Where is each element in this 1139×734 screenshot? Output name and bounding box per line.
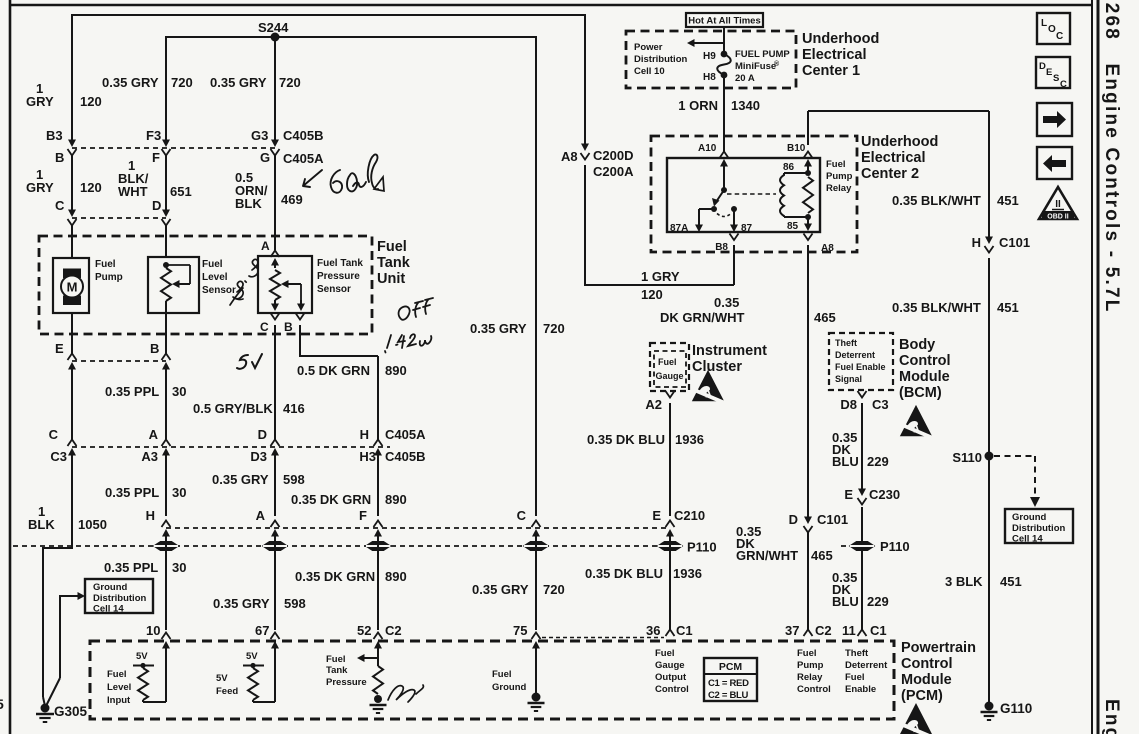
connector G3/G on W3 xyxy=(271,140,279,148)
page border top line xyxy=(10,4,1092,7)
svg-text:120: 120 xyxy=(80,180,102,195)
svg-text:Distribution: Distribution xyxy=(634,54,687,65)
pressure sensor lower arrow xyxy=(274,300,276,305)
svg-text:Fuel: Fuel xyxy=(95,259,116,270)
svg-text:Gauge: Gauge xyxy=(656,371,684,381)
svg-text:Output: Output xyxy=(655,672,687,683)
svg-text:MiniFuse: MiniFuse xyxy=(735,61,776,72)
svg-text:Deterrent: Deterrent xyxy=(845,660,888,671)
svg-text:Input: Input xyxy=(107,695,131,706)
relay switch-coil dashed link xyxy=(727,193,776,195)
svg-text:0.35 BLK/WHT: 0.35 BLK/WHT xyxy=(892,300,981,315)
connector D C101 on relay control wire xyxy=(807,517,809,519)
svg-text:52: 52 xyxy=(357,623,371,638)
svg-text:Level: Level xyxy=(202,272,228,283)
svg-text:B10: B10 xyxy=(787,143,806,154)
svg-text:451: 451 xyxy=(997,300,1019,315)
fuel pump brush lower xyxy=(63,296,81,306)
PCM dashed box xyxy=(90,641,894,719)
Instrument cluster outer dashed box xyxy=(650,343,689,391)
junction row P110 dashed line xyxy=(13,545,682,547)
svg-text:Deterrent: Deterrent xyxy=(835,350,875,360)
svg-text:Electrical: Electrical xyxy=(802,47,867,63)
svg-text:30: 30 xyxy=(172,384,186,399)
svg-text:H: H xyxy=(972,235,981,250)
handwriting 5v check xyxy=(237,354,262,369)
svg-text:0.35 DK BLU: 0.35 DK BLU xyxy=(585,566,663,581)
svg-text:Cell 14: Cell 14 xyxy=(93,604,124,615)
svg-text:0.35 BLK/WHT: 0.35 BLK/WHT xyxy=(892,193,981,208)
svg-text:C: C xyxy=(260,320,269,334)
svg-text:Level: Level xyxy=(107,682,131,693)
relay pin 85 arrow xyxy=(807,217,809,225)
icon box arrow right xyxy=(1037,103,1072,136)
connector row C210 dashed line xyxy=(166,527,670,529)
svg-text:F: F xyxy=(152,150,160,165)
wire W4 below C405 xyxy=(377,454,379,516)
svg-text:(BCM): (BCM) xyxy=(899,385,942,401)
svg-text:75: 75 xyxy=(513,623,527,638)
svg-text:A: A xyxy=(149,427,159,442)
connector 75 into PCM xyxy=(532,633,541,640)
arrow into ground distribution box xyxy=(60,595,79,597)
svg-text:C2: C2 xyxy=(815,623,832,638)
svg-text:Control: Control xyxy=(655,684,689,695)
svg-text:Fuel: Fuel xyxy=(377,239,407,255)
connector E on W1 xyxy=(68,354,77,361)
svg-text:Fuel: Fuel xyxy=(655,648,675,659)
svg-text:Cluster: Cluster xyxy=(692,359,742,375)
svg-text:D: D xyxy=(1039,61,1046,72)
svg-text:O: O xyxy=(1048,24,1056,35)
svg-text:37: 37 xyxy=(785,623,799,638)
svg-text:5V: 5V xyxy=(216,673,228,684)
connector F3/F on W2 xyxy=(162,140,170,148)
UEC2 dashed box xyxy=(651,136,857,252)
svg-text:0.35 GRY: 0.35 GRY xyxy=(213,596,270,611)
svg-text:(PCM): (PCM) xyxy=(901,688,943,704)
svg-text:890: 890 xyxy=(385,492,407,507)
svg-text:20 A: 20 A xyxy=(735,73,755,84)
wire B8 down to 1 GRY junction xyxy=(733,245,735,285)
svg-text:C405B: C405B xyxy=(385,449,425,464)
svg-text:S: S xyxy=(1053,73,1059,84)
svg-text:C405A: C405A xyxy=(283,151,324,166)
wire from GD box to G305 xyxy=(59,595,61,678)
svg-text:0.5 DK GRN: 0.5 DK GRN xyxy=(297,363,370,378)
svg-text:5V: 5V xyxy=(136,651,148,662)
svg-text:0.35 DK BLU: 0.35 DK BLU xyxy=(587,432,665,447)
svg-text:Tank: Tank xyxy=(377,255,411,271)
connector A8 C200D/C200A inline xyxy=(584,14,586,144)
svg-text:BLK: BLK xyxy=(235,196,262,211)
svg-text:D: D xyxy=(258,427,267,442)
svg-text:C: C xyxy=(1060,79,1067,90)
svg-text:451: 451 xyxy=(997,193,1019,208)
svg-text:Pump: Pump xyxy=(826,171,853,182)
svg-text:Fuel Tank: Fuel Tank xyxy=(317,258,363,269)
wire B output of pressure sensor xyxy=(299,325,301,356)
svg-text:Module: Module xyxy=(901,672,952,688)
grommet P110 on wire x=536 xyxy=(524,542,548,551)
Theft deterrent fuel enable signal dashed box xyxy=(829,333,893,390)
svg-text:11: 11 xyxy=(842,623,856,638)
relay switch arm xyxy=(716,190,724,202)
svg-text:Distribution: Distribution xyxy=(93,593,146,604)
arrow to power distribution xyxy=(693,42,724,44)
svg-text:A: A xyxy=(261,239,270,253)
fuel pump relay K1 box xyxy=(667,158,820,232)
svg-text:651: 651 xyxy=(170,184,192,199)
pressure sensor feed arrow xyxy=(274,264,276,268)
svg-text:P110: P110 xyxy=(880,539,910,554)
svg-text:Enable: Enable xyxy=(845,684,876,695)
fuse F1 FUEL PUMP MiniFuse 20A xyxy=(721,51,728,58)
svg-text:0.35 GRY: 0.35 GRY xyxy=(210,75,267,90)
svg-text:10: 10 xyxy=(146,623,160,638)
svg-text:F3: F3 xyxy=(146,128,161,143)
svg-text:H: H xyxy=(360,427,369,442)
svg-text:C101: C101 xyxy=(817,512,848,527)
svg-text:Underhood: Underhood xyxy=(802,31,879,47)
svg-text:Feed: Feed xyxy=(216,686,238,697)
wire B10 from ground bus xyxy=(807,111,809,145)
PCM legend box xyxy=(704,658,757,701)
svg-text:229: 229 xyxy=(867,594,889,609)
svg-text:C200D: C200D xyxy=(593,148,633,163)
ground G110 xyxy=(985,702,994,711)
grommet P110 on wire x=670 xyxy=(658,542,682,551)
svg-text:C: C xyxy=(517,508,527,523)
handwriting 3.3k ohm xyxy=(234,259,258,298)
svg-text:®: ® xyxy=(774,60,780,68)
level sensor wiper xyxy=(166,264,190,266)
svg-text:1050: 1050 xyxy=(78,517,107,532)
ground G305 xyxy=(41,704,50,713)
sidebar rule outer xyxy=(1097,0,1100,734)
svg-text:598: 598 xyxy=(284,596,306,611)
svg-text:Fuel: Fuel xyxy=(107,669,127,680)
svg-text:C1: C1 xyxy=(676,623,693,638)
svg-text:E: E xyxy=(844,487,853,502)
wire 11 drop from C230 xyxy=(861,507,863,630)
svg-text:Ground: Ground xyxy=(492,682,526,693)
Fuel Tank Unit dashed box xyxy=(39,236,372,334)
svg-text:5: 5 xyxy=(0,696,4,712)
connector B8 xyxy=(730,234,739,241)
svg-text:30: 30 xyxy=(172,485,186,500)
svg-text:36: 36 xyxy=(646,623,660,638)
svg-text:30: 30 xyxy=(172,560,186,575)
svg-text:H: H xyxy=(146,508,155,523)
svg-text:GRY: GRY xyxy=(26,180,54,195)
splice S110 xyxy=(985,452,994,461)
svg-text:A3: A3 xyxy=(141,449,158,464)
svg-text:E: E xyxy=(1046,67,1052,78)
svg-text:720: 720 xyxy=(279,75,301,90)
connector A2 xyxy=(666,391,675,398)
svg-text:GRY: GRY xyxy=(26,94,54,109)
wire W1 below C405 to bend xyxy=(71,454,73,549)
svg-text:Fuel: Fuel xyxy=(658,357,677,367)
svg-text:G3: G3 xyxy=(251,128,268,143)
svg-text:L: L xyxy=(1041,18,1047,29)
grommet P110 on wire x=275 xyxy=(263,542,287,551)
wire W3 0.35 GRY drop xyxy=(274,36,276,142)
svg-text:0.35 GRY: 0.35 GRY xyxy=(212,472,269,487)
svg-text:720: 720 xyxy=(543,321,565,336)
wire A8 down to PCM 37 xyxy=(807,245,809,518)
ESD symbol PCM xyxy=(899,703,934,734)
wire W5 0.35 GRY drop xyxy=(535,36,537,516)
svg-text:Powertrain: Powertrain xyxy=(901,640,976,656)
svg-text:A10: A10 xyxy=(698,143,717,154)
svg-text:G305: G305 xyxy=(54,704,88,719)
connector 11 terminating xyxy=(858,630,867,637)
svg-text:B: B xyxy=(55,150,64,165)
fuel tank pressure sensor box xyxy=(258,256,312,313)
svg-text:1268 Engine Controls - 5.7L: 1268 Engine Controls - 5.7L xyxy=(1101,0,1122,314)
connector C405 row1 dashed line xyxy=(72,147,275,149)
svg-text:Tank: Tank xyxy=(326,665,348,676)
node S244 xyxy=(271,33,280,42)
connector A8 out xyxy=(804,234,813,241)
svg-text:67: 67 xyxy=(255,623,269,638)
ESD symbol BCM xyxy=(900,405,933,438)
connector C on W1 xyxy=(68,210,76,218)
svg-text:Relay: Relay xyxy=(797,672,823,683)
connector H C101 xyxy=(988,237,990,239)
svg-text:A: A xyxy=(256,508,266,523)
connector A10 chevron xyxy=(720,152,729,159)
fuel pump M1 outline box xyxy=(53,258,89,313)
level sensor resistor xyxy=(161,268,171,301)
svg-text:II: II xyxy=(1055,199,1061,210)
wire top feed 1 GRY from C200 to left column xyxy=(71,14,585,16)
connector H row C210 xyxy=(162,521,171,528)
svg-text:Relay: Relay xyxy=(826,183,852,194)
page border left line xyxy=(9,0,12,734)
relay switch pivot xyxy=(721,187,727,193)
svg-text:DK GRN/WHT: DK GRN/WHT xyxy=(660,310,745,325)
svg-text:OBD II: OBD II xyxy=(1047,214,1068,221)
connector 67 into PCM xyxy=(271,633,280,640)
svg-text:1936: 1936 xyxy=(673,566,702,581)
svg-text:C: C xyxy=(1056,31,1063,42)
relay pin 86 arrow xyxy=(804,159,812,167)
svg-text:598: 598 xyxy=(283,472,305,487)
relay contact 87A xyxy=(711,206,717,212)
svg-text:G110: G110 xyxy=(1000,701,1032,716)
svg-text:FUEL PUMP: FUEL PUMP xyxy=(735,49,790,60)
svg-text:S244: S244 xyxy=(258,20,289,35)
svg-text:H9: H9 xyxy=(703,51,716,62)
svg-text:Body: Body xyxy=(899,337,935,353)
svg-text:120: 120 xyxy=(80,94,102,109)
handwriting scribble at pressure ground xyxy=(388,685,423,702)
wire S110 to G110 xyxy=(988,456,990,702)
connector B on W2 xyxy=(162,354,171,361)
UEC1 dashed box xyxy=(626,31,796,88)
pressure sensor resistor xyxy=(270,270,280,300)
wire 1 GRY from C200 to relay B8 xyxy=(585,284,734,286)
svg-text:0.35 PPL: 0.35 PPL xyxy=(104,560,158,575)
connector F row C210 xyxy=(374,521,383,528)
wire splice bus S244 xyxy=(166,36,536,38)
connector 52 into PCM xyxy=(374,633,383,640)
svg-text:0.5 GRY/BLK: 0.5 GRY/BLK xyxy=(193,401,273,416)
svg-text:Center 2: Center 2 xyxy=(861,166,919,182)
svg-text:3 BLK: 3 BLK xyxy=(945,574,983,589)
svg-text:Electrical: Electrical xyxy=(861,150,926,166)
icon box DESC xyxy=(1036,57,1070,88)
svg-text:Control: Control xyxy=(901,656,953,672)
ground distribution cell14 box left xyxy=(85,579,153,613)
svg-text:Gauge: Gauge xyxy=(655,660,685,671)
svg-text:G: G xyxy=(260,150,270,165)
Hot At All Times tag box xyxy=(686,13,763,27)
svg-text:Pump: Pump xyxy=(95,272,123,283)
connector on wire x=166 row C405 lower xyxy=(162,440,171,447)
svg-text:Cell 10: Cell 10 xyxy=(634,66,665,77)
connector row2 dashed line xyxy=(72,217,166,219)
wire segments through P110 row xyxy=(165,534,167,630)
svg-text:A2: A2 xyxy=(645,397,662,412)
svg-text:Pressure: Pressure xyxy=(326,677,367,688)
svg-text:Fuel: Fuel xyxy=(326,654,346,665)
wire W2 0.35 GRY drop xyxy=(165,36,167,142)
svg-text:C2: C2 xyxy=(385,623,402,638)
svg-text:86: 86 xyxy=(783,162,795,173)
svg-text:C101: C101 xyxy=(999,235,1030,250)
svg-text:A8: A8 xyxy=(821,243,834,254)
svg-text:465: 465 xyxy=(811,548,833,563)
svg-text:S110: S110 xyxy=(952,450,982,465)
svg-text:1340: 1340 xyxy=(731,98,760,113)
wire 37 drop from C101 xyxy=(807,532,809,630)
svg-text:1 ORN: 1 ORN xyxy=(678,98,718,113)
wire W1 1 GRY left drop xyxy=(71,14,73,142)
svg-text:BLU: BLU xyxy=(832,454,859,469)
svg-text:Fuel: Fuel xyxy=(202,259,223,270)
sidebar rule inner xyxy=(1091,0,1093,734)
svg-text:720: 720 xyxy=(171,75,193,90)
svg-text:P110: P110 xyxy=(687,540,717,555)
svg-text:BLK: BLK xyxy=(28,517,55,532)
connector E C230 xyxy=(861,489,863,491)
wire W1 bend to G305 xyxy=(43,547,72,549)
level sensor feed dot xyxy=(163,262,169,268)
svg-text:H8: H8 xyxy=(703,72,716,83)
grommet P110 on wire x=166 xyxy=(154,542,178,551)
svg-text:1 GRY: 1 GRY xyxy=(641,269,680,284)
svg-text:Cell 14: Cell 14 xyxy=(1012,534,1043,545)
svg-text:Theft: Theft xyxy=(835,338,857,348)
Fuel gauge inner dashed box xyxy=(654,351,686,387)
svg-text:C210: C210 xyxy=(674,508,705,523)
svg-text:C230: C230 xyxy=(869,487,900,502)
svg-text:C: C xyxy=(55,198,65,213)
svg-text:M: M xyxy=(67,280,78,295)
svg-text:WHT: WHT xyxy=(118,184,148,199)
wire from hot box to fuse xyxy=(723,26,725,54)
icon OBD II warning triangle xyxy=(1039,187,1077,219)
connector row E/B dashed line xyxy=(72,360,166,362)
relay coil xyxy=(780,173,784,217)
ground distribution cell14 box right xyxy=(1005,509,1073,543)
svg-text:0.35 DK GRN: 0.35 DK GRN xyxy=(295,569,375,584)
svg-text:Distribution: Distribution xyxy=(1012,523,1065,534)
svg-text:GRN/WHT: GRN/WHT xyxy=(736,548,798,563)
relay contact 87 dashed throw xyxy=(717,214,731,217)
connector C row C210 xyxy=(532,521,541,528)
svg-text:E: E xyxy=(55,341,64,356)
svg-text:Pump: Pump xyxy=(797,660,824,671)
connector D on W2 xyxy=(162,210,170,218)
svg-text:H3: H3 xyxy=(359,449,376,464)
connector B3/B on W1 xyxy=(68,140,76,148)
svg-text:Power: Power xyxy=(634,42,663,53)
wire BCM down xyxy=(861,403,863,490)
relay switch feed xyxy=(720,159,728,167)
svg-text:Ground: Ground xyxy=(1012,512,1046,523)
grommet P110 on wire x=378 xyxy=(366,542,390,551)
svg-text:B3: B3 xyxy=(46,128,63,143)
svg-text:1936: 1936 xyxy=(675,432,704,447)
grommet P110 on BCM wire xyxy=(861,510,863,542)
svg-text:F: F xyxy=(359,508,367,523)
svg-text:87A: 87A xyxy=(670,223,688,234)
svg-text:C405A: C405A xyxy=(385,427,426,442)
svg-text:0.35 DK GRN: 0.35 DK GRN xyxy=(291,492,371,507)
svg-text:D: D xyxy=(789,512,798,527)
svg-text:Sensor: Sensor xyxy=(317,284,351,295)
fuel pump motor circle M xyxy=(61,276,83,298)
svg-text:C3: C3 xyxy=(50,449,67,464)
svg-text:Sensor: Sensor xyxy=(202,285,236,296)
ground bus wire to right column xyxy=(808,110,989,112)
connector row C405 lower dashed line xyxy=(72,446,390,448)
connector D8 C3 xyxy=(858,391,867,398)
svg-text:Center 1: Center 1 xyxy=(802,63,860,79)
svg-text:Fuel: Fuel xyxy=(797,648,817,659)
svg-text:B8: B8 xyxy=(715,242,728,253)
svg-text:Pressure: Pressure xyxy=(317,271,360,282)
connector on wire x=72 row C405 lower xyxy=(68,440,77,447)
svg-text:Control: Control xyxy=(797,684,831,695)
connector E row C210 xyxy=(666,521,675,528)
svg-text:Control: Control xyxy=(899,353,951,369)
connector A row C210 xyxy=(271,521,280,528)
svg-text:Underhood: Underhood xyxy=(861,134,938,150)
S110 dashed branch to ground distribution xyxy=(994,455,1035,457)
connector on wire x=275 row C405 lower xyxy=(271,440,280,447)
svg-text:C3: C3 xyxy=(872,397,889,412)
svg-text:D: D xyxy=(152,198,161,213)
svg-text:229: 229 xyxy=(867,454,889,469)
connector 10 into PCM xyxy=(162,633,171,640)
wire W3 below C405 xyxy=(274,454,276,516)
svg-text:Hot At All Times: Hot At All Times xyxy=(688,16,761,27)
svg-text:416: 416 xyxy=(283,401,305,416)
svg-text:B: B xyxy=(284,320,293,334)
wire W3 to row C405A2 xyxy=(274,325,276,440)
svg-text:Fuel: Fuel xyxy=(845,672,865,683)
svg-text:0.35 GRY: 0.35 GRY xyxy=(470,321,527,336)
svg-text:469: 469 xyxy=(281,192,303,207)
relay coil resistor xyxy=(803,177,813,213)
wire below level sensor xyxy=(165,301,167,313)
